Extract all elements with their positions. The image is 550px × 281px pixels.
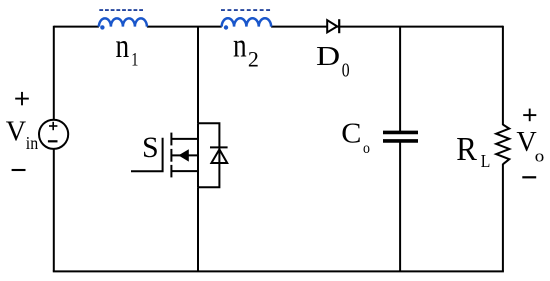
wire: top rail between n2 and D0 anode (271, 26, 327, 28)
svg-text:S: S (142, 131, 159, 164)
svg-text:in: in (26, 133, 39, 153)
inductor winding n2 polarity dot (224, 25, 228, 29)
diode D0 triangle (327, 20, 337, 32)
voltage source Vin internal plus (49, 122, 57, 130)
svg-text:n: n (115, 26, 129, 65)
polarity minus at Vin (12, 169, 26, 171)
transistor S body stub with arrow (171, 149, 198, 161)
wire: switch branch through MOSFET (197, 123, 199, 187)
voltage source Vin circle (39, 120, 68, 149)
capacitor Co top plate (383, 131, 418, 135)
svg-text:D: D (316, 41, 340, 71)
body diode branch rectangle of switch (198, 123, 219, 187)
svg-text:L: L (481, 151, 491, 171)
inductor winding n1 coil (99, 18, 147, 26)
svg-text:2: 2 (248, 47, 259, 72)
svg-text:C: C (341, 118, 361, 149)
inductor winding n2 coil (222, 18, 271, 26)
capacitor Co bottom plate (383, 139, 418, 143)
body diode cathode bar (210, 146, 228, 148)
svg-text:o: o (535, 146, 545, 165)
polarity plus at Vin (15, 92, 29, 105)
wire: capacitor branch upper (399, 27, 401, 131)
wire: right rail upper (output + to RL) (502, 26, 504, 125)
wire: top rail between n1 and n2 (node at switch branch) (147, 26, 222, 28)
wire: capacitor branch lower (399, 142, 401, 271)
svg-text:n: n (233, 26, 247, 65)
svg-text:R: R (456, 131, 477, 169)
wire: top rail from D0 cathode to output node (337, 26, 503, 28)
wire: top rail left segment (Vin+ to n1) (54, 26, 99, 28)
transistor S source stub (171, 170, 198, 172)
wire: left rail upper (Vin + terminal) (53, 26, 55, 121)
inductor winding n2 core dashed line (221, 9, 271, 11)
wire: left rail lower (Vin - terminal) (53, 148, 55, 271)
svg-text:V: V (6, 116, 27, 147)
transistor S channel dashes (170, 133, 172, 178)
svg-text:0: 0 (342, 59, 350, 81)
svg-text:1: 1 (131, 48, 138, 69)
polarity minus at Vo (522, 176, 536, 178)
wire: switch branch upper (top rail to MOSFET drain) (197, 27, 199, 124)
body diode triangle (anode, pointing up) (211, 149, 227, 163)
wire: bottom rail (53, 270, 504, 272)
wire: switch branch lower (MOSFET source to bottom rail) (197, 187, 199, 271)
wire: right rail lower (RL to bottom rail) (502, 164, 504, 272)
transistor S drain stub (171, 138, 198, 140)
inductor winding n1 polarity dot (100, 25, 104, 29)
polarity plus at Vo (523, 109, 536, 122)
diode D0 cathode bar (338, 19, 340, 33)
transistor S gate lead (131, 138, 163, 172)
svg-text:o: o (363, 140, 370, 157)
resistor RL zigzag (496, 125, 509, 165)
inductor winding n1 core dashed line (99, 9, 143, 11)
voltage source Vin internal minus (48, 140, 58, 142)
